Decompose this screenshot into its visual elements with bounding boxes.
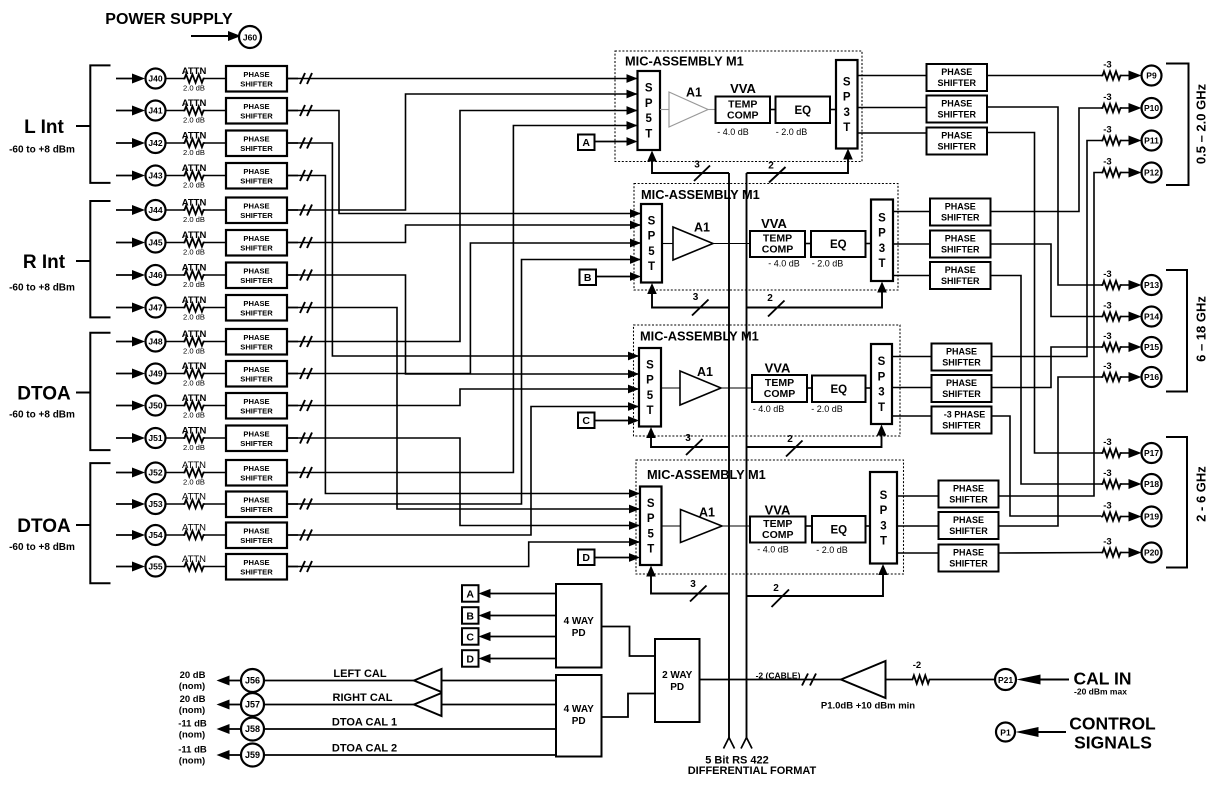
- wire attenuator to phase shifter: [205, 242, 226, 244]
- input arrow J46: [116, 274, 136, 276]
- svg-text:PHASE: PHASE: [941, 67, 972, 77]
- wire attenuator to phase shifter: [205, 566, 226, 568]
- connector J53: [146, 494, 166, 514]
- wire amplifier to attenuator: [886, 679, 912, 681]
- svg-text:ATTN: ATTN: [182, 523, 206, 534]
- svg-text:VVA: VVA: [730, 81, 756, 96]
- connector J54: [146, 525, 166, 545]
- svg-text:-60 to +8 dBm: -60 to +8 dBm: [9, 410, 75, 421]
- attenuator ATTN 2.0 dB (J41 row): [183, 106, 205, 114]
- svg-text:P10: P10: [1144, 103, 1159, 113]
- svg-text:ATTN: ATTN: [182, 361, 207, 372]
- wire attenuator to phase shifter: [205, 307, 226, 309]
- attenuator ATTN 2.0 dB (J45 row): [183, 238, 205, 246]
- svg-text:P16: P16: [1144, 372, 1159, 382]
- wire J45 to SP5T2 in2: [287, 225, 641, 243]
- wire J54 to attenuator: [166, 534, 184, 536]
- phase shifter box (J42 row): [226, 131, 287, 157]
- svg-text:4 WAY: 4 WAY: [564, 616, 595, 627]
- wire EQ to SP3T (1): [830, 109, 836, 111]
- wire attenuator to phase shifter: [205, 534, 226, 536]
- wire SP3T4 output 1: [897, 495, 939, 497]
- output phase shifter box (assembly 1 out 2): [927, 96, 988, 123]
- wire SP3T4 output 3: [897, 552, 939, 554]
- svg-text:2.0 dB: 2.0 dB: [183, 280, 205, 289]
- wire J48 to SP5T1 in3: [287, 111, 638, 342]
- svg-text:J49: J49: [148, 369, 162, 379]
- wire attenuator to phase shifter: [205, 110, 226, 112]
- input arrow J48: [116, 341, 136, 343]
- wire J41 to SP5T2 in1: [287, 111, 641, 214]
- wire with break marks: [287, 242, 298, 244]
- phase shifter box (J47 row): [226, 295, 287, 321]
- svg-text:3: 3: [878, 387, 884, 399]
- svg-text:D: D: [466, 653, 474, 665]
- MIC-ASSEMBLY M1 dashed enclosure (assembly 2): [634, 184, 898, 291]
- attenuator ATTN 2.0 dB (J55 row): [183, 562, 205, 570]
- svg-text:T: T: [646, 405, 653, 417]
- svg-text:-11 dB: -11 dB: [178, 745, 207, 756]
- wire to P14: [1122, 316, 1130, 318]
- phase shifter box (J44 row): [226, 198, 287, 224]
- attenuator -3 (P20 row): [1101, 548, 1122, 556]
- svg-text:PHASE: PHASE: [243, 333, 269, 342]
- switch SP5T (assembly 3): [639, 348, 661, 427]
- svg-text:-3: -3: [1103, 537, 1111, 548]
- wire attenuator to phase shifter: [205, 472, 226, 474]
- wire VVA to EQ (2): [805, 243, 811, 245]
- svg-text:PHASE: PHASE: [243, 496, 269, 505]
- phase shifter box (J40 row): [226, 66, 287, 92]
- svg-text:2.0 dB: 2.0 dB: [183, 148, 205, 157]
- svg-text:T: T: [878, 402, 885, 414]
- connector J44: [146, 200, 166, 220]
- attenuator ATTN 2.0 dB (J53 row): [183, 500, 205, 508]
- input arrow J45: [116, 242, 136, 244]
- cable break marks: [802, 674, 808, 686]
- bracket R Int group: [90, 201, 110, 317]
- wire J55 to SP5T4 in4: [287, 542, 640, 567]
- svg-text:2.0 dB: 2.0 dB: [183, 478, 205, 487]
- wire A box to SP5T in5: [595, 141, 636, 143]
- svg-text:S: S: [843, 76, 851, 88]
- 2 WAY PD box: [655, 639, 700, 722]
- svg-text:3: 3: [694, 160, 700, 171]
- output phase shifter box (assembly 3 out 2): [932, 375, 992, 402]
- svg-text:P13: P13: [1144, 280, 1159, 290]
- svg-text:D: D: [582, 552, 590, 564]
- svg-text:J46: J46: [148, 270, 162, 280]
- cal input box D: [578, 550, 595, 566]
- svg-text:ATTN: ATTN: [182, 460, 206, 471]
- svg-text:P19: P19: [1144, 512, 1159, 522]
- equalizer EQ box (assembly 3): [812, 376, 866, 403]
- svg-text:SHIFTER: SHIFTER: [937, 142, 976, 152]
- attenuator -3 (P14 row): [1101, 312, 1122, 320]
- wire J41 to attenuator: [166, 110, 184, 112]
- svg-text:ATTN: ATTN: [182, 393, 207, 404]
- wire attenuator to phase shifter: [205, 274, 226, 276]
- wire J55 to attenuator: [166, 566, 184, 568]
- bracket output group 6 – 18 GHz: [1166, 270, 1187, 392]
- svg-text:S: S: [646, 359, 654, 371]
- svg-text:(nom): (nom): [179, 756, 205, 767]
- svg-text:-3: -3: [1103, 92, 1111, 103]
- svg-text:C: C: [466, 631, 474, 643]
- connector J41: [146, 101, 166, 121]
- svg-text:SHIFTER: SHIFTER: [240, 177, 273, 186]
- output phase shifter box (assembly 3 out 3): [932, 407, 992, 434]
- wire J40 to attenuator: [166, 78, 184, 80]
- attenuator -3 (P10 row): [1101, 104, 1122, 112]
- wire attenuator to phase shifter: [205, 78, 226, 80]
- svg-text:PHASE: PHASE: [243, 70, 269, 79]
- svg-text:ATTN: ATTN: [182, 230, 207, 241]
- output phase shifter box (assembly 1 out 1): [927, 64, 988, 91]
- svg-text:SHIFTER: SHIFTER: [949, 559, 988, 569]
- svg-text:PHASE: PHASE: [941, 131, 972, 141]
- output phase shifter box (assembly 4 out 1): [939, 481, 999, 508]
- attenuator ATTN 2.0 dB (J47 row): [183, 303, 205, 311]
- wire with break marks: [287, 373, 298, 375]
- connector J60: [239, 26, 261, 48]
- phase shifter box (J54 row): [226, 523, 287, 549]
- wire SP5T to amplifier (4): [662, 525, 681, 527]
- wire power supply arrow: [191, 35, 232, 37]
- wire SP3T2 output 3: [893, 275, 930, 277]
- svg-text:A1: A1: [694, 221, 710, 235]
- connector P1: [996, 723, 1015, 742]
- wire SP3T3 output 1: [892, 356, 932, 358]
- output arrow J57: [228, 704, 241, 706]
- wire amplifier to VVA (1): [708, 109, 716, 111]
- svg-text:MIC-ASSEMBLY M1: MIC-ASSEMBLY M1: [647, 467, 766, 482]
- wire with break marks: [287, 534, 298, 536]
- phase shifter box (J48 row): [226, 329, 287, 355]
- amplifier A1 (assembly 2): [673, 227, 713, 260]
- svg-text:4 WAY: 4 WAY: [564, 704, 595, 715]
- wire J53 to SP5T2 in4: [287, 260, 641, 505]
- svg-text:A: A: [582, 137, 590, 149]
- svg-text:SHIFTER: SHIFTER: [240, 343, 273, 352]
- svg-text:SHIFTER: SHIFTER: [240, 309, 273, 318]
- wire J50 to SP5T3 in3: [287, 389, 639, 406]
- wire 3-bit control branch to SP5T (assembly 1): [652, 160, 729, 174]
- svg-text:- 4.0 dB: - 4.0 dB: [757, 545, 789, 555]
- wire 4 WAY PD to J57 row: [442, 704, 557, 706]
- svg-text:2: 2: [767, 293, 773, 304]
- VVA temp comp box (assembly 1): [716, 97, 771, 124]
- svg-text:ATTN: ATTN: [182, 131, 207, 142]
- connector J50: [146, 396, 166, 416]
- wire with break marks: [287, 175, 298, 177]
- wire SP3T3 output 3: [892, 415, 932, 417]
- wire 3-bit control branch to SP5T (assembly 2): [652, 292, 729, 308]
- svg-text:-20 dBm max: -20 dBm max: [1074, 687, 1127, 697]
- svg-text:-3 PHASE: -3 PHASE: [944, 410, 986, 420]
- wire D box to SP5T in5: [595, 557, 639, 559]
- svg-text:A1: A1: [697, 365, 713, 379]
- svg-text:-3: -3: [1103, 361, 1111, 372]
- svg-text:MIC-ASSEMBLY M1: MIC-ASSEMBLY M1: [640, 329, 759, 344]
- connector J46: [146, 265, 166, 285]
- wire attenuator to phase shifter: [205, 373, 226, 375]
- svg-text:-11 dB: -11 dB: [178, 719, 207, 730]
- wire J49 to SP5T2 in3: [287, 243, 641, 374]
- svg-text:RIGHT CAL: RIGHT CAL: [333, 692, 393, 704]
- output phase shifter box (assembly 2 out 1): [930, 199, 991, 226]
- wire to P9: [1122, 75, 1130, 77]
- attenuator ATTN 2.0 dB (J49 row): [183, 369, 205, 377]
- wire lower 4 WAY PD to 2 WAY PD: [602, 694, 656, 718]
- svg-text:J55: J55: [148, 562, 162, 572]
- wire J47 to attenuator: [166, 307, 184, 309]
- wire EQ to SP3T (4): [866, 525, 871, 527]
- connector P20: [1142, 543, 1162, 563]
- phase shifter box (J50 row): [226, 393, 287, 419]
- bracket DTOA group: [90, 463, 110, 583]
- attenuator -3 (P12 row): [1101, 168, 1122, 176]
- svg-text:P: P: [843, 92, 851, 104]
- wire P9 feed from A1 out1: [987, 75, 1101, 77]
- svg-text:J48: J48: [148, 337, 162, 347]
- wire J51 to attenuator: [166, 437, 184, 439]
- svg-text:SHIFTER: SHIFTER: [240, 474, 273, 483]
- output arrow J56: [228, 680, 241, 682]
- switch SP3T (assembly 3): [871, 344, 892, 424]
- wire with break marks: [287, 110, 298, 112]
- wire J42 to SP5T3 in1: [287, 143, 639, 356]
- amplifier on J56 row: [414, 669, 442, 692]
- phase shifter box (J46 row): [226, 263, 287, 289]
- attenuator ATTN 2.0 dB (J54 row): [183, 531, 205, 539]
- attenuator -3 (P9 row): [1101, 71, 1122, 79]
- svg-text:-3: -3: [1103, 301, 1111, 312]
- svg-text:J41: J41: [148, 106, 162, 116]
- svg-text:2: 2: [768, 161, 774, 172]
- MIC-ASSEMBLY M1 dashed enclosure (assembly 4): [636, 460, 904, 574]
- wire P13 feed from A1 out2: [987, 107, 1101, 285]
- svg-text:3: 3: [880, 520, 886, 532]
- MIC-ASSEMBLY M1 dashed enclosure (assembly 3): [634, 325, 901, 436]
- svg-text:PHASE: PHASE: [243, 267, 269, 276]
- wire J54 to SP5T3 in4: [287, 407, 639, 536]
- svg-text:T: T: [880, 536, 887, 548]
- svg-text:- 2.0 dB: - 2.0 dB: [811, 404, 843, 414]
- phase shifter box (J43 row): [226, 163, 287, 189]
- wire to P11: [1122, 140, 1130, 142]
- cal input box C: [578, 413, 595, 429]
- wire with break marks: [287, 274, 298, 276]
- input arrow J44: [116, 209, 136, 211]
- svg-text:T: T: [878, 258, 885, 270]
- svg-text:S: S: [878, 356, 886, 368]
- wire 4 WAY PD to J58 row: [264, 728, 556, 730]
- svg-text:CONTROL: CONTROL: [1069, 714, 1156, 734]
- svg-text:P: P: [878, 228, 886, 240]
- connector J56: [241, 669, 264, 692]
- wire SP3T4 output 2: [897, 525, 939, 527]
- svg-text:P: P: [646, 375, 654, 387]
- svg-text:J40: J40: [148, 74, 162, 84]
- phase shifter box (J49 row): [226, 361, 287, 387]
- wire with break marks: [287, 503, 298, 505]
- switch SP5T (assembly 2): [641, 204, 662, 283]
- connector J52: [146, 463, 166, 483]
- attenuator -2: [911, 675, 931, 683]
- attenuator -3 (P11 row): [1101, 136, 1122, 144]
- phase shifter box (J51 row): [226, 426, 287, 452]
- wire SP3T1 output 3: [858, 132, 927, 134]
- svg-text:-2: -2: [913, 660, 921, 671]
- switch SP5T (assembly 4): [640, 487, 662, 566]
- svg-text:SIGNALS: SIGNALS: [1074, 733, 1152, 753]
- attenuator ATTN 2.0 dB (J52 row): [183, 468, 205, 476]
- svg-text:2.0 dB: 2.0 dB: [183, 215, 205, 224]
- svg-text:P17: P17: [1144, 448, 1159, 458]
- svg-text:J50: J50: [148, 401, 162, 411]
- wire label tick: [76, 125, 90, 127]
- equalizer EQ box (assembly 1): [776, 97, 831, 124]
- amplifier A1 (assembly 3): [680, 371, 721, 405]
- amplifier A1 (assembly 1): [669, 92, 708, 127]
- svg-text:PHASE: PHASE: [243, 527, 269, 536]
- svg-text:-3: -3: [1103, 468, 1111, 479]
- 4 WAY PD box (lower): [556, 675, 602, 757]
- svg-text:SHIFTER: SHIFTER: [941, 245, 980, 255]
- svg-text:5: 5: [648, 528, 655, 540]
- svg-text:PHASE: PHASE: [946, 347, 977, 357]
- wire to P12: [1122, 172, 1130, 174]
- wire 4 WAY PD to J59 row: [264, 754, 556, 756]
- svg-text:B: B: [466, 610, 474, 622]
- svg-text:B: B: [584, 272, 592, 284]
- svg-text:S: S: [645, 83, 653, 95]
- amplifier A1 (assembly 4): [681, 510, 723, 543]
- svg-text:ATTN: ATTN: [182, 295, 207, 306]
- input arrow J43: [116, 175, 136, 177]
- wire VVA to EQ (1): [770, 109, 776, 111]
- wire 2 WAY PD to cal amplifier: [700, 679, 842, 681]
- attenuator -3 (P15 row): [1101, 343, 1122, 351]
- svg-text:A: A: [466, 588, 474, 600]
- svg-text:PD: PD: [670, 682, 684, 693]
- svg-text:MIC-ASSEMBLY M1: MIC-ASSEMBLY M1: [625, 54, 744, 69]
- phase shifter box (J55 row): [226, 554, 287, 580]
- output phase shifter box (assembly 2 out 3): [930, 262, 991, 289]
- input arrow J40: [116, 78, 136, 80]
- connector P12: [1142, 163, 1162, 183]
- svg-text:S: S: [648, 215, 656, 227]
- svg-text:ATTN: ATTN: [182, 198, 207, 209]
- switch SP3T (assembly 2): [871, 200, 893, 282]
- wire J43 to attenuator: [166, 175, 184, 177]
- svg-text:SHIFTER: SHIFTER: [942, 389, 981, 399]
- connector J48: [146, 332, 166, 352]
- svg-text:ATTN: ATTN: [182, 66, 207, 77]
- wire 2-bit control branch to SP3T (assembly 4): [747, 573, 884, 596]
- svg-text:2.0 dB: 2.0 dB: [183, 411, 205, 420]
- wire J50 to attenuator: [166, 405, 184, 407]
- wire VVA to EQ (3): [807, 387, 812, 389]
- svg-text:PHASE: PHASE: [953, 515, 984, 525]
- wire SP5T to amplifier (2): [662, 243, 673, 245]
- svg-text:VVA: VVA: [765, 503, 791, 518]
- output phase shifter box (assembly 4 out 2): [939, 512, 999, 539]
- svg-text:SHIFTER: SHIFTER: [240, 536, 273, 545]
- connector P18: [1142, 474, 1162, 494]
- svg-text:6 – 18 GHz: 6 – 18 GHz: [1194, 296, 1209, 362]
- svg-text:POWER SUPPLY: POWER SUPPLY: [105, 11, 233, 28]
- control bus vertical line 1 (3 bit): [728, 173, 730, 738]
- wire with break marks: [287, 209, 298, 211]
- svg-text:J60: J60: [243, 33, 257, 43]
- wire attenuator to P21: [931, 679, 995, 681]
- cal input box B: [580, 270, 597, 286]
- svg-text:- 4.0 dB: - 4.0 dB: [717, 127, 749, 137]
- bus end chevron 1: [724, 738, 735, 749]
- wire to P10: [1122, 107, 1130, 109]
- svg-text:2: 2: [787, 434, 793, 445]
- svg-text:SHIFTER: SHIFTER: [240, 80, 273, 89]
- wire SP5T to amplifier (3): [661, 387, 680, 389]
- svg-text:PHASE: PHASE: [243, 202, 269, 211]
- bracket output group 2 - 6 GHz: [1166, 437, 1187, 568]
- svg-text:5: 5: [646, 113, 653, 125]
- svg-text:PHASE: PHASE: [243, 167, 269, 176]
- input arrow J47: [116, 307, 136, 309]
- wire amplifier to VVA (4): [722, 525, 750, 527]
- svg-text:ATTN: ATTN: [182, 263, 207, 274]
- wire 4 WAY PD to A: [490, 593, 556, 595]
- output phase shifter box (assembly 1 out 3): [927, 128, 988, 155]
- wire with break marks: [287, 566, 298, 568]
- attenuator ATTN 2.0 dB (J40 row): [183, 74, 205, 82]
- input arrow J55: [116, 566, 136, 568]
- svg-text:-60 to +8 dBm: -60 to +8 dBm: [9, 283, 75, 294]
- input arrow J52: [116, 472, 136, 474]
- equalizer EQ box (assembly 2): [811, 231, 866, 257]
- svg-text:J57: J57: [245, 700, 260, 710]
- wire 3-bit control branch to SP5T (assembly 4): [651, 575, 729, 594]
- wire P19 feed from A3 out3: [992, 416, 1102, 516]
- svg-text:T: T: [647, 544, 654, 556]
- wire label tick: [76, 392, 90, 394]
- wire label tick: [76, 524, 90, 526]
- svg-text:-60 to +8 dBm: -60 to +8 dBm: [9, 542, 75, 553]
- svg-text:PHASE: PHASE: [953, 548, 984, 558]
- bracket output group 0.5 – 2.0 GHz: [1166, 64, 1189, 186]
- svg-text:P: P: [880, 505, 888, 517]
- wire to P20: [1122, 552, 1130, 554]
- VVA temp comp box (assembly 3): [752, 375, 807, 402]
- svg-text:-3: -3: [1103, 437, 1111, 448]
- wire 4 WAY PD to D: [490, 658, 556, 660]
- svg-text:ATTN: ATTN: [182, 329, 207, 340]
- svg-text:J59: J59: [245, 750, 260, 760]
- wire to P18: [1122, 483, 1130, 485]
- amplifier on J57 row: [414, 693, 442, 716]
- svg-text:P: P: [645, 98, 653, 110]
- input arrow J49: [116, 373, 136, 375]
- svg-text:-2 (CABLE): -2 (CABLE): [756, 671, 801, 681]
- svg-text:PHASE: PHASE: [243, 558, 269, 567]
- wire SP5T to amplifier (1): [660, 109, 669, 111]
- svg-text:2: 2: [773, 583, 779, 594]
- svg-text:EQ: EQ: [794, 105, 811, 117]
- svg-text:J56: J56: [245, 676, 260, 686]
- svg-text:J42: J42: [148, 138, 162, 148]
